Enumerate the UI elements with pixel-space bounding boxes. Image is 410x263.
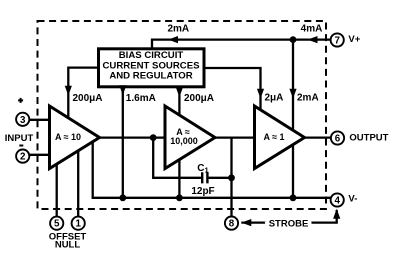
- wire A2 output vertical to pin 8: [230, 138, 232, 217]
- arrow 200uA down: [65, 86, 72, 96]
- svg-text:V+: V+: [348, 34, 360, 45]
- svg-text:A ≈ 10: A ≈ 10: [55, 132, 81, 142]
- svg-text:200μA: 200μA: [73, 93, 103, 104]
- label plus: [18, 98, 23, 103]
- pin 1 circle: [72, 217, 85, 230]
- wire A2 output to A3: [215, 136, 255, 138]
- svg-text:10,000: 10,000: [170, 136, 198, 146]
- svg-text:STROBE: STROBE: [269, 219, 309, 230]
- pin 6 circle: [331, 131, 344, 144]
- amplifier A1 triangle: [50, 106, 100, 169]
- amplifier A3 triangle: [255, 106, 305, 169]
- arrow 2mA into bias box: [168, 36, 178, 43]
- node A2 emitter junction: [176, 194, 183, 201]
- node junction on V+ rail: [290, 36, 297, 43]
- svg-text:6: 6: [335, 134, 341, 145]
- wire A2 emitter to rail: [178, 160, 180, 198]
- arrow strobe up to pin 4: [333, 209, 340, 219]
- pin 3 circle: [16, 113, 29, 126]
- svg-text:V-: V-: [348, 194, 357, 205]
- arrow 2mA down: [289, 89, 296, 99]
- wire A3 emitter to rail: [292, 145, 294, 198]
- arrow 4mA: [308, 36, 318, 43]
- wire pin3 to A1: [29, 119, 49, 121]
- svg-text:INPUT: INPUT: [5, 133, 34, 144]
- pin 8 circle: [225, 217, 238, 230]
- wire A3 output to pin 6: [305, 136, 332, 138]
- svg-text:4mA: 4mA: [301, 24, 323, 35]
- svg-text:12pF: 12pF: [191, 186, 214, 197]
- svg-text:7: 7: [334, 36, 340, 47]
- wire offset null pin 1: [77, 151, 79, 217]
- wire offset null pin 5: [56, 164, 58, 217]
- pin 4 circle: [331, 193, 344, 206]
- pin 2 circle: [16, 150, 29, 163]
- pin 5 circle: [50, 217, 63, 230]
- svg-text:AND REGULATOR: AND REGULATOR: [109, 71, 192, 82]
- node A1 output junction: [150, 134, 157, 141]
- svg-text:3: 3: [20, 115, 26, 126]
- svg-text:2μA: 2μA: [265, 93, 284, 104]
- pin 7 circle: [331, 33, 344, 46]
- wire C1 right to node: [208, 177, 231, 179]
- svg-text:OUTPUT: OUTPUT: [349, 133, 388, 144]
- wire strobe: [241, 210, 336, 223]
- label minus: [19, 145, 23, 147]
- dashed IC boundary box: [38, 21, 327, 209]
- svg-text:200μA: 200μA: [184, 93, 214, 104]
- arrow 2uA down: [257, 89, 264, 99]
- svg-text:1.6mA: 1.6mA: [126, 93, 156, 104]
- arrow 200uA down: [176, 87, 183, 97]
- svg-text:5: 5: [54, 219, 60, 230]
- svg-text:1: 1: [75, 219, 81, 230]
- svg-text:2mA: 2mA: [297, 93, 319, 104]
- wire A1 output to A2: [100, 136, 166, 138]
- svg-text:C1: C1: [197, 163, 208, 175]
- wire 200uA second from bias box bottom to A2: [178, 87, 180, 115]
- wire bias box left to A1 with 200uA arrow: [68, 68, 98, 118]
- svg-text:2: 2: [20, 152, 26, 163]
- wire bias box right to A3 with 2uA arrow: [204, 68, 261, 110]
- capacitor C1: [202, 172, 207, 183]
- svg-text:A ≈ 1: A ≈ 1: [263, 132, 284, 142]
- arrow strobe into pin 8: [241, 219, 251, 226]
- wire V- rail: [93, 142, 331, 198]
- node 1.6mA to rail: [119, 194, 126, 201]
- wire junction down to C1: [153, 138, 201, 178]
- svg-text:NULL: NULL: [55, 239, 81, 250]
- node A3 emitter junction: [290, 194, 297, 201]
- svg-text:2mA: 2mA: [167, 24, 189, 35]
- wire 2mA from V+ junction down to A3: [292, 40, 294, 130]
- node C1 right junction: [228, 174, 235, 181]
- svg-text:8: 8: [229, 219, 235, 230]
- wire V+ rail: [152, 40, 331, 49]
- wire pin2 to A1: [29, 154, 49, 156]
- amplifier A2 triangle: [165, 106, 215, 169]
- bias circuit box U1: [99, 49, 205, 87]
- svg-text:4: 4: [334, 196, 340, 207]
- arrow 1.6mA down: [119, 85, 126, 95]
- wire 1.6mA from bias box bottom to V- rail: [122, 87, 124, 198]
